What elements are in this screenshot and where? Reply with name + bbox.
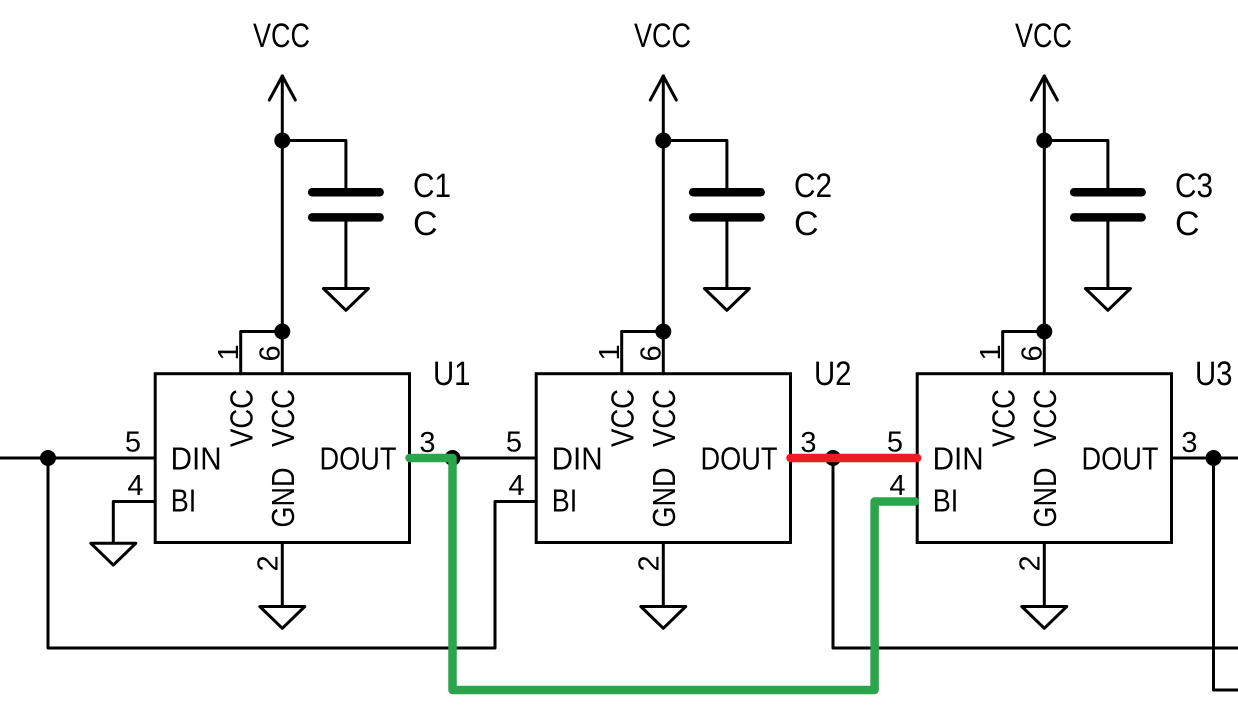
wire link node A to U2 BI xyxy=(48,458,536,648)
svg-text:DOUT: DOUT xyxy=(701,441,778,477)
ground (pin 2, stage 2) xyxy=(641,607,686,629)
wire U1 DOUT to U2 DIN xyxy=(453,457,537,460)
wire capacitor C3 to ground xyxy=(1106,221,1109,289)
wire to capacitor C1 xyxy=(282,141,346,190)
svg-text:1: 1 xyxy=(213,344,245,360)
svg-text:DIN: DIN xyxy=(171,441,222,477)
ground (pin 2, stage 1) xyxy=(260,607,305,629)
wire DIN input (U1) xyxy=(0,457,155,460)
wire pin 2 to ground (stage 1) xyxy=(281,543,284,607)
svg-text:GND: GND xyxy=(265,468,301,528)
svg-text:BI: BI xyxy=(552,483,578,519)
svg-text:GND: GND xyxy=(1027,468,1063,528)
svg-text:U2: U2 xyxy=(814,355,852,393)
capacitor C2 xyxy=(693,167,832,243)
wire pin 2 to ground (stage 2) xyxy=(662,543,665,607)
svg-text:C: C xyxy=(794,205,819,243)
svg-text:GND: GND xyxy=(646,468,682,528)
highlighted green wire: node B to U3 BI xyxy=(410,458,916,690)
junction dot VCC/C2 xyxy=(655,133,671,149)
ground (below C2) xyxy=(704,289,749,311)
svg-text:C: C xyxy=(1175,205,1200,243)
svg-text:VCC: VCC xyxy=(223,389,259,447)
svg-text:VCC: VCC xyxy=(253,17,310,55)
IC U2 xyxy=(506,344,852,571)
svg-text:DIN: DIN xyxy=(552,441,603,477)
junction dot node D (U3 DOUT) xyxy=(1206,450,1222,466)
svg-text:4: 4 xyxy=(127,470,143,502)
junction dot node B (U1 DOUT / U2 DIN) xyxy=(445,450,461,466)
svg-text:4: 4 xyxy=(508,470,524,502)
IC U3 xyxy=(887,344,1233,571)
svg-text:VCC: VCC xyxy=(634,17,691,55)
svg-text:C2: C2 xyxy=(794,167,832,205)
junction dot node C (U2 DOUT / U3 DIN) xyxy=(825,450,841,466)
wire pin1 to pin6 tie (stage 3) xyxy=(1003,332,1045,374)
svg-text:2: 2 xyxy=(1015,555,1047,571)
junction dot node A (U1 DIN) xyxy=(40,450,56,466)
svg-text:1: 1 xyxy=(975,344,1007,360)
svg-text:2: 2 xyxy=(634,555,666,571)
svg-text:BI: BI xyxy=(171,483,197,519)
IC U1 xyxy=(125,344,471,571)
capacitor C1 xyxy=(312,167,451,243)
wire VCC vertical (stage 1) xyxy=(281,76,284,374)
svg-text:VCC: VCC xyxy=(985,389,1021,447)
wire link node C down and right (to next sheet) xyxy=(833,458,1238,648)
svg-text:3: 3 xyxy=(1181,427,1197,459)
svg-text:C3: C3 xyxy=(1175,167,1213,205)
svg-text:U1: U1 xyxy=(433,355,471,393)
svg-text:VCC: VCC xyxy=(265,389,301,447)
ground (below C1) xyxy=(323,289,368,311)
junction dot pin6 (stage 1) xyxy=(274,324,290,340)
svg-text:5: 5 xyxy=(125,427,141,459)
wire VCC vertical (stage 3) xyxy=(1043,76,1046,374)
wire pin 2 to ground (stage 3) xyxy=(1043,543,1046,607)
wire pin1 to pin6 tie (stage 2) xyxy=(622,332,664,374)
svg-text:6: 6 xyxy=(1017,345,1049,361)
power symbol VCC (stage 1) xyxy=(253,17,310,100)
wire capacitor C1 to ground xyxy=(344,221,347,289)
ground (below C3) xyxy=(1085,289,1130,311)
junction dot VCC/C3 xyxy=(1036,133,1052,149)
wire VCC vertical (stage 2) xyxy=(662,76,665,374)
wire U1 BI to ground xyxy=(113,502,155,544)
power symbol VCC (stage 3) xyxy=(1015,17,1072,100)
svg-text:DOUT: DOUT xyxy=(1082,441,1159,477)
ground (U1 BI) xyxy=(91,543,136,565)
svg-text:DOUT: DOUT xyxy=(320,441,397,477)
svg-text:6: 6 xyxy=(636,345,668,361)
svg-text:5: 5 xyxy=(506,427,522,459)
wire to capacitor C3 xyxy=(1044,141,1108,190)
ground (pin 2, stage 3) xyxy=(1022,607,1067,629)
svg-text:C1: C1 xyxy=(413,167,451,205)
svg-text:VCC: VCC xyxy=(1015,17,1072,55)
wire capacitor C2 to ground xyxy=(725,221,728,289)
svg-text:6: 6 xyxy=(255,345,287,361)
svg-text:4: 4 xyxy=(889,470,905,502)
svg-text:U3: U3 xyxy=(1195,355,1233,393)
highlighted red wire: U2 DOUT to U3 DIN xyxy=(791,454,918,463)
capacitor C3 xyxy=(1074,167,1213,243)
svg-text:DIN: DIN xyxy=(933,441,984,477)
svg-text:VCC: VCC xyxy=(646,389,682,447)
svg-text:5: 5 xyxy=(887,427,903,459)
svg-text:VCC: VCC xyxy=(1027,389,1063,447)
svg-text:VCC: VCC xyxy=(604,389,640,447)
junction dot pin6 (stage 3) xyxy=(1036,324,1052,340)
svg-text:BI: BI xyxy=(933,483,959,519)
svg-text:C: C xyxy=(413,205,438,243)
junction dot pin6 (stage 2) xyxy=(655,324,671,340)
power symbol VCC (stage 2) xyxy=(634,17,691,100)
svg-text:1: 1 xyxy=(594,344,626,360)
junction dot VCC/C1 xyxy=(274,133,290,149)
wire to capacitor C2 xyxy=(663,141,727,190)
wire pin1 to pin6 tie (stage 1) xyxy=(241,332,283,374)
wire U3 DOUT output xyxy=(1173,457,1238,460)
wire link node D down and right (to next sheet) xyxy=(1214,458,1238,690)
svg-text:2: 2 xyxy=(253,555,285,571)
